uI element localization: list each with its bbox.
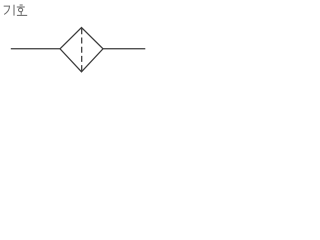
label "기호" glyph 기: [4, 5, 14, 16]
filter F1 element (dashed line): [81, 28, 83, 71]
wire left port: [11, 48, 61, 50]
label "기호" glyph 호: [17, 5, 27, 15]
filter F1 diamond body: [60, 28, 103, 72]
wire right port: [103, 48, 146, 50]
